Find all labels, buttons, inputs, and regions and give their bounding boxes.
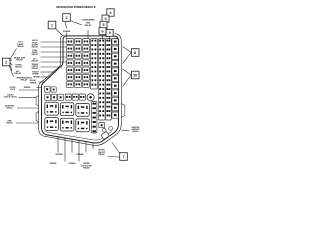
- callout 9: [106, 29, 113, 36]
- callout 10: [131, 71, 139, 79]
- leader from callout 1 to box corner: [56, 29, 63, 36]
- svg-text:RELAY: RELAY: [17, 45, 24, 48]
- leader to callout 7 from box corner: [112, 143, 120, 154]
- leader fan relay: [16, 122, 39, 124]
- relay row 1 relay c: [76, 103, 90, 116]
- leader 67: [41, 66, 63, 68]
- svg-text:INTEGRATED POWER MODULE: INTEGRATED POWER MODULE: [56, 5, 95, 9]
- leader chain to box top: [102, 35, 104, 40]
- svg-text:SPARE: SPARE: [33, 76, 40, 79]
- bottom drop line 6: [92, 143, 94, 149]
- leader from callout 2 to spare fuse: [65, 22, 67, 29]
- bottom drop line 3: [71, 139, 73, 152]
- svg-text:RELAY: RELAY: [85, 24, 92, 27]
- leader to callout 7 from wiper label: [108, 156, 120, 159]
- leader 82: [39, 81, 46, 83]
- svg-text:5: 5: [102, 23, 104, 27]
- bottom drop line 5: [85, 142, 87, 153]
- relay row 1 relay a: [45, 102, 59, 115]
- fuse box body outline: [42, 36, 119, 143]
- relay row 2 relay b: [60, 118, 74, 131]
- leader 77: [41, 76, 51, 78]
- svg-text:FAN: FAN: [86, 21, 91, 24]
- svg-text:SPARE: SPARE: [77, 153, 85, 156]
- leader doorlock: [19, 89, 39, 91]
- callout 2 left fan: [2, 58, 10, 66]
- svg-text:SPARE: SPARE: [63, 30, 71, 33]
- svg-text:9: 9: [109, 31, 111, 35]
- svg-text:RELAY: RELAY: [32, 67, 39, 70]
- callout 5: [100, 21, 107, 28]
- callout 3: [102, 15, 109, 22]
- svg-text:RELAY: RELAY: [14, 72, 21, 75]
- right column of square fuses: [112, 39, 119, 45]
- relay row 1 relay b: [60, 103, 74, 116]
- svg-text:RELAY: RELAY: [15, 66, 22, 69]
- svg-text:RELAY: RELAY: [132, 130, 139, 133]
- fuse strip column 6 tall narrow: [106, 39, 112, 121]
- extra small fuses upper-left of relay area: [44, 86, 50, 92]
- leader starter: [17, 107, 39, 109]
- leader calif: [19, 96, 37, 98]
- svg-text:RELAY: RELAY: [98, 153, 105, 156]
- svg-text:SPARE: SPARE: [30, 81, 37, 84]
- small fuse group above relays: [45, 94, 51, 100]
- callout 8: [131, 49, 139, 57]
- svg-text:8: 8: [134, 51, 136, 55]
- leader lines for callout 10: [123, 69, 132, 75]
- fuse cell column 1: [67, 39, 74, 45]
- leader 52: [41, 51, 67, 53]
- svg-text:2: 2: [5, 60, 7, 64]
- fuse cell column 3: [83, 39, 90, 45]
- svg-text:SPARE: SPARE: [24, 86, 31, 89]
- small fuses lower middle: [99, 123, 105, 128]
- callout 7: [120, 153, 128, 161]
- callout 4: [107, 9, 114, 16]
- leader 42: [41, 41, 67, 43]
- leader from callout 2 to condenser fan relay: [70, 21, 81, 25]
- svg-text:RELAY: RELAY: [16, 59, 23, 62]
- leader spare to box top: [66, 33, 68, 39]
- svg-text:RELAY: RELAY: [83, 167, 90, 170]
- fuse cell column 2: [75, 39, 82, 45]
- svg-text:RELAY: RELAY: [6, 106, 13, 109]
- svg-text:7: 7: [122, 155, 124, 159]
- svg-text:SPARE: SPARE: [32, 73, 39, 76]
- fuse box outer flange outline: [39, 34, 122, 146]
- svg-text:SPARE: SPARE: [69, 162, 77, 165]
- fuse strip column 4: [91, 39, 98, 90]
- svg-text:RELAY: RELAY: [21, 79, 28, 82]
- fuse strip column 5 tall: [98, 39, 105, 121]
- corner stud circles: [102, 128, 106, 132]
- inner bottom rim line: [45, 131, 113, 140]
- leader 62: [41, 61, 67, 63]
- mini fuse strip right of relays: [92, 102, 97, 134]
- micro fuse pairs above relays: [65, 94, 71, 100]
- bottom drop line 4: [78, 141, 80, 162]
- leader 57: [41, 56, 67, 58]
- right edge tab: [121, 104, 125, 118]
- svg-text:2: 2: [65, 16, 67, 20]
- svg-text:CONDENSER: CONDENSER: [81, 19, 95, 21]
- svg-text:3: 3: [104, 17, 106, 21]
- svg-text:6: 6: [101, 30, 103, 34]
- svg-text:RELAY: RELAY: [32, 53, 39, 56]
- leader lines for callout 8: [123, 47, 132, 53]
- callout 1: [48, 21, 56, 29]
- stud circle: [87, 94, 94, 101]
- svg-text:1: 1: [51, 23, 53, 27]
- leader 87: [37, 86, 42, 88]
- relay row 2 relay c: [76, 119, 90, 132]
- svg-text:SPARE: SPARE: [56, 153, 64, 156]
- leader condenser to box top: [87, 30, 89, 38]
- svg-text:RELAY: RELAY: [32, 45, 39, 48]
- callout 2: [63, 14, 71, 22]
- left edge mounting tab lower: [36, 112, 39, 123]
- leader 72: [41, 71, 57, 73]
- svg-text:RELAY: RELAY: [6, 121, 13, 124]
- bottom drop line 2: [64, 138, 66, 161]
- fan leader lines from left callout 2: [10, 49, 17, 60]
- svg-text:10: 10: [133, 73, 137, 77]
- svg-text:(CALIF ONLY): (CALIF ONLY): [4, 95, 17, 98]
- relay row 2 relay a: [45, 118, 59, 131]
- svg-text:RELAY: RELAY: [32, 59, 39, 62]
- leader 47: [41, 46, 67, 48]
- callout 6: [99, 28, 106, 35]
- corner component near BR: [101, 131, 109, 139]
- bottom drop line 1: [57, 137, 59, 153]
- svg-text:LOCK: LOCK: [10, 89, 16, 91]
- left edge mounting tab upper: [36, 96, 39, 107]
- leader heated mirror: [121, 129, 129, 131]
- svg-text:SPARE: SPARE: [50, 162, 58, 165]
